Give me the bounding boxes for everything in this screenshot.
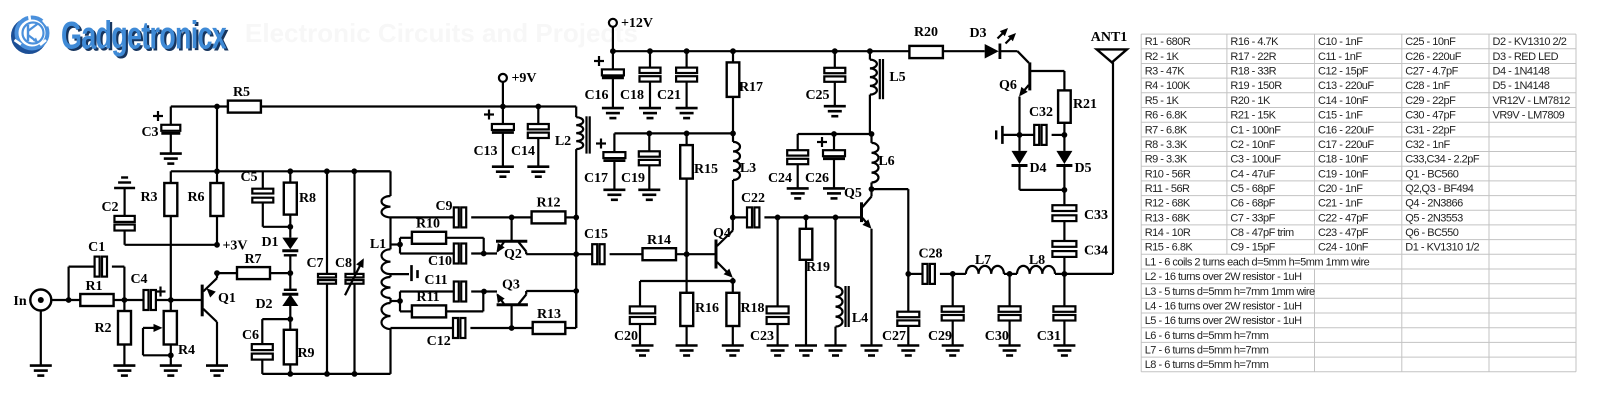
svg-text:L1 - 6 coils 2 turns each d=5m: L1 - 6 coils 2 turns each d=5mm h=5mm 1m… (1145, 256, 1370, 268)
svg-text:R18 - 33R: R18 - 33R (1230, 66, 1276, 78)
svg-text:C16 - 220uF: C16 - 220uF (1318, 124, 1374, 136)
svg-text:C33,C34 - 2.2pF: C33,C34 - 2.2pF (1405, 154, 1480, 166)
svg-text:C16: C16 (584, 88, 608, 103)
svg-text:R1 - 680R: R1 - 680R (1145, 36, 1191, 48)
svg-text:C10: C10 (428, 254, 452, 269)
svg-text:C15: C15 (584, 227, 608, 242)
svg-text:Q4: Q4 (713, 226, 731, 241)
svg-text:C7: C7 (306, 256, 323, 271)
svg-text:R20: R20 (914, 25, 938, 40)
svg-text:L4: L4 (852, 311, 868, 326)
svg-text:R13: R13 (537, 307, 561, 322)
svg-text:D4 - 1N4148: D4 - 1N4148 (1493, 66, 1550, 78)
svg-text:R12: R12 (536, 196, 560, 211)
svg-text:C19: C19 (621, 171, 645, 186)
svg-text:C14: C14 (511, 144, 535, 159)
svg-text:R15 - 6.8K: R15 - 6.8K (1145, 242, 1194, 254)
svg-text:R6 - 6.8K: R6 - 6.8K (1145, 110, 1188, 122)
svg-text:D2 - KV1310 2/2: D2 - KV1310 2/2 (1493, 36, 1567, 48)
svg-text:C18: C18 (620, 88, 644, 103)
svg-text:C2 - 10nF: C2 - 10nF (1230, 139, 1275, 151)
svg-text:R11: R11 (416, 290, 439, 305)
svg-text:L3 - 5 turns d=5mm h=7mm 1mm w: L3 - 5 turns d=5mm h=7mm 1mm wire (1145, 286, 1315, 298)
svg-text:C1 - 100nF: C1 - 100nF (1230, 124, 1281, 136)
svg-text:C32: C32 (1029, 105, 1053, 120)
svg-text:C17 - 220uF: C17 - 220uF (1318, 139, 1374, 151)
svg-text:C24 - 10nF: C24 - 10nF (1318, 242, 1369, 254)
svg-text:C29: C29 (928, 329, 952, 344)
svg-text:C28: C28 (918, 247, 942, 262)
svg-text:R10: R10 (416, 217, 440, 232)
svg-text:R14: R14 (647, 233, 671, 248)
svg-text:C21: C21 (657, 88, 681, 103)
svg-text:VR9V - LM7809: VR9V - LM7809 (1493, 110, 1565, 122)
svg-text:L6: L6 (878, 154, 894, 169)
svg-text:C23: C23 (750, 329, 774, 344)
svg-text:In: In (13, 294, 26, 309)
svg-text:D3 - RED LED: D3 - RED LED (1493, 51, 1559, 63)
svg-text:C1: C1 (88, 240, 105, 255)
svg-text:L7: L7 (975, 253, 991, 268)
svg-text:+9V: +9V (511, 71, 536, 86)
svg-text:R7: R7 (244, 252, 261, 267)
svg-text:D3: D3 (969, 26, 986, 41)
svg-text:C34: C34 (1084, 244, 1108, 259)
svg-text:C20 - 1nF: C20 - 1nF (1318, 183, 1363, 195)
svg-text:R18: R18 (740, 301, 764, 316)
svg-text:C12 - 15pF: C12 - 15pF (1318, 66, 1369, 78)
svg-text:R5: R5 (233, 85, 250, 100)
svg-text:D4: D4 (1029, 161, 1046, 176)
svg-text:R8: R8 (299, 191, 316, 206)
svg-text:R17 - 22R: R17 - 22R (1230, 51, 1276, 63)
svg-text:C25 - 10nF: C25 - 10nF (1405, 36, 1456, 48)
svg-text:C18 - 10nF: C18 - 10nF (1318, 154, 1369, 166)
svg-text:L5 - 16 turns over 2W resistor: L5 - 16 turns over 2W resistor - 1uH (1145, 315, 1302, 327)
svg-text:D1 - KV1310 1/2: D1 - KV1310 1/2 (1405, 242, 1479, 254)
svg-text:R10 - 56R: R10 - 56R (1145, 168, 1191, 180)
svg-text:Electronic Circuits and Projec: Electronic Circuits and Projects (245, 18, 638, 48)
svg-text:D1: D1 (261, 235, 278, 250)
svg-text:L6 - 6 turns d=5mm h=7mm: L6 - 6 turns d=5mm h=7mm (1145, 330, 1269, 342)
svg-text:L8: L8 (1029, 253, 1045, 268)
svg-text:+12V: +12V (621, 16, 653, 31)
svg-text:C24: C24 (768, 171, 792, 186)
svg-text:R16 - 4.7K: R16 - 4.7K (1230, 36, 1279, 48)
svg-text:C32 - 1nF: C32 - 1nF (1405, 139, 1450, 151)
svg-text:R3 - 47K: R3 - 47K (1145, 66, 1186, 78)
svg-text:C7 - 33pF: C7 - 33pF (1230, 212, 1275, 224)
svg-text:C20: C20 (614, 329, 638, 344)
svg-text:C33: C33 (1084, 208, 1108, 223)
svg-text:L2: L2 (555, 134, 571, 149)
svg-text:C11: C11 (424, 273, 447, 288)
svg-text:R9: R9 (297, 346, 314, 361)
svg-text:C22: C22 (741, 191, 765, 206)
svg-text:Q6 - BC550: Q6 - BC550 (1405, 227, 1458, 239)
svg-text:C13: C13 (473, 144, 497, 159)
svg-text:R2 - 1K: R2 - 1K (1145, 51, 1180, 63)
svg-text:VR12V - LM7812: VR12V - LM7812 (1493, 95, 1571, 107)
svg-text:R13 - 68K: R13 - 68K (1145, 212, 1191, 224)
svg-text:C8: C8 (335, 256, 352, 271)
svg-text:C12: C12 (427, 334, 451, 349)
svg-text:C28 - 1nF: C28 - 1nF (1405, 80, 1450, 92)
svg-text:C4 - 47uF: C4 - 47uF (1230, 168, 1275, 180)
svg-text:C30: C30 (985, 329, 1009, 344)
svg-text:L3: L3 (740, 161, 756, 176)
svg-text:C9: C9 (435, 199, 452, 214)
svg-text:R12 - 68K: R12 - 68K (1145, 198, 1191, 210)
svg-text:L7 - 6 turns d=5mm h=7mm: L7 - 6 turns d=5mm h=7mm (1145, 345, 1269, 357)
svg-text:Q3: Q3 (502, 278, 520, 293)
svg-text:C4: C4 (130, 272, 147, 287)
svg-text:C3: C3 (141, 125, 158, 140)
svg-text:R21: R21 (1073, 97, 1097, 112)
svg-text:R21 - 15K: R21 - 15K (1230, 110, 1276, 122)
svg-text:C27: C27 (882, 329, 906, 344)
svg-text:R2: R2 (94, 321, 111, 336)
svg-text:L5: L5 (889, 70, 905, 85)
svg-text:L8 - 6 turns d=5mm h=7mm: L8 - 6 turns d=5mm h=7mm (1145, 359, 1269, 371)
svg-text:R3: R3 (140, 190, 157, 205)
svg-text:L1: L1 (370, 237, 386, 252)
svg-text:C8 - 47pF trim: C8 - 47pF trim (1230, 227, 1294, 239)
svg-text:C25: C25 (805, 88, 829, 103)
svg-text:R8 - 3.3K: R8 - 3.3K (1145, 139, 1188, 151)
svg-text:R11 - 56R: R11 - 56R (1145, 183, 1190, 195)
svg-text:C6: C6 (242, 328, 259, 343)
svg-text:Q5 - 2N3553: Q5 - 2N3553 (1405, 212, 1463, 224)
svg-text:C14 - 10nF: C14 - 10nF (1318, 95, 1369, 107)
svg-text:Q1: Q1 (218, 291, 236, 306)
svg-text:Q2,Q3 - BF494: Q2,Q3 - BF494 (1405, 183, 1473, 195)
svg-text:Q2: Q2 (504, 247, 522, 262)
svg-text:C3 - 100uF: C3 - 100uF (1230, 154, 1281, 166)
svg-text:R9 - 3.3K: R9 - 3.3K (1145, 154, 1188, 166)
svg-text:C6 - 68pF: C6 - 68pF (1230, 198, 1275, 210)
svg-text:Q5: Q5 (844, 186, 862, 201)
svg-text:D5 - 1N4148: D5 - 1N4148 (1493, 80, 1550, 92)
svg-text:C26: C26 (805, 171, 829, 186)
svg-text:C19 - 10nF: C19 - 10nF (1318, 168, 1369, 180)
svg-text:C2: C2 (101, 200, 118, 215)
svg-text:C30 - 47pF: C30 - 47pF (1405, 110, 1456, 122)
svg-text:C11 - 1nF: C11 - 1nF (1318, 51, 1362, 63)
svg-text:C26 - 220uF: C26 - 220uF (1405, 51, 1461, 63)
svg-text:L4 - 16 turns over 2W resistor: L4 - 16 turns over 2W resistor - 1uH (1145, 300, 1302, 312)
svg-text:C17: C17 (584, 171, 608, 186)
svg-text:R1: R1 (85, 279, 102, 294)
svg-text:R16: R16 (695, 301, 719, 316)
svg-text:R19: R19 (806, 260, 830, 275)
svg-text:C5 - 68pF: C5 - 68pF (1230, 183, 1275, 195)
svg-text:R19 - 150R: R19 - 150R (1230, 80, 1282, 92)
svg-text:R6: R6 (187, 190, 204, 205)
svg-text:Gadgetronicx: Gadgetronicx (61, 15, 227, 58)
svg-text:R17: R17 (739, 80, 763, 95)
svg-text:C22 - 47pF: C22 - 47pF (1318, 212, 1369, 224)
svg-text:R5 - 1K: R5 - 1K (1145, 95, 1180, 107)
svg-text:L2 - 16 turns over 2W resistor: L2 - 16 turns over 2W resistor - 1uH (1145, 271, 1302, 283)
svg-text:R15: R15 (694, 162, 718, 177)
svg-text:C23 - 47pF: C23 - 47pF (1318, 227, 1369, 239)
svg-text:C29 - 22pF: C29 - 22pF (1405, 95, 1456, 107)
svg-text:C31 - 22pF: C31 - 22pF (1405, 124, 1456, 136)
svg-text:C27 - 4.7pF: C27 - 4.7pF (1405, 66, 1458, 78)
svg-text:C21 - 1nF: C21 - 1nF (1318, 198, 1363, 210)
svg-text:R7 - 6.8K: R7 - 6.8K (1145, 124, 1188, 136)
svg-text:Q6: Q6 (999, 78, 1017, 93)
svg-text:C31: C31 (1037, 329, 1061, 344)
svg-text:R20 - 1K: R20 - 1K (1230, 95, 1271, 107)
svg-text:R4: R4 (178, 343, 195, 358)
svg-text:R4 - 100K: R4 - 100K (1145, 80, 1191, 92)
svg-text:Q4 - 2N3866: Q4 - 2N3866 (1405, 198, 1463, 210)
svg-text:C15 - 1nF: C15 - 1nF (1318, 110, 1363, 122)
svg-text:C13 - 220uF: C13 - 220uF (1318, 80, 1374, 92)
svg-text:D5: D5 (1074, 161, 1091, 176)
svg-text:ANT1: ANT1 (1091, 30, 1128, 45)
svg-text:C9 - 15pF: C9 - 15pF (1230, 242, 1275, 254)
svg-text:C10 - 1nF: C10 - 1nF (1318, 36, 1363, 48)
svg-text:Q1 - BC560: Q1 - BC560 (1405, 168, 1458, 180)
svg-text:R14 - 10R: R14 - 10R (1145, 227, 1191, 239)
svg-text:D2: D2 (255, 297, 272, 312)
svg-text:C5: C5 (240, 170, 257, 185)
